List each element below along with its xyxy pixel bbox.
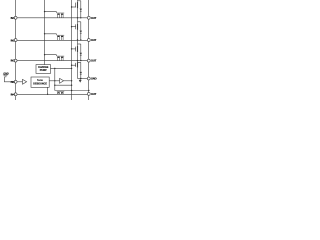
svg-text:OUT: OUT bbox=[91, 16, 97, 20]
FET3 channel bar bbox=[77, 46, 79, 52]
junction D1 anode bbox=[80, 17, 81, 18]
junction tap top bbox=[54, 68, 55, 69]
gate bus from charge pump bbox=[44, 0, 46, 65]
junction gate Q1 bbox=[71, 6, 72, 7]
wire row1 bbox=[17, 17, 87, 19]
junction gate bus row1 bbox=[44, 11, 45, 12]
pin ON bbox=[14, 80, 17, 83]
junction row4 gate bbox=[71, 90, 72, 91]
wire row3 bbox=[17, 60, 87, 62]
GND pin wire bbox=[78, 78, 88, 80]
junction buffer2 out bbox=[71, 80, 72, 81]
wire ON pin to buffer bbox=[17, 81, 22, 83]
buffer2 output wire bbox=[64, 80, 72, 82]
diode4 lead bbox=[80, 62, 82, 78]
junction row4 gate bus bbox=[88, 90, 89, 91]
gate branch row2 bbox=[45, 34, 57, 35]
right gate-drive line bbox=[71, 0, 73, 100]
pin IN1 bbox=[14, 16, 17, 19]
svg-text:GND: GND bbox=[3, 72, 9, 75]
junction gate Q4 bbox=[71, 65, 72, 66]
wire row2 bbox=[17, 39, 87, 41]
charge pump output wire bbox=[51, 67, 72, 69]
FET4 channel bar bbox=[77, 62, 79, 67]
svg-text:IN1: IN1 bbox=[11, 16, 15, 20]
junction gate Q3 bbox=[71, 48, 72, 49]
pin OUT3 bbox=[87, 59, 90, 62]
diode1 bar bbox=[80, 10, 82, 13]
gate branch row1 bbox=[45, 12, 57, 13]
FET stack channel lead bbox=[77, 0, 79, 79]
junction gate bus row2 bbox=[44, 33, 45, 34]
wire row4 bbox=[17, 93, 87, 95]
junction tap debounce bbox=[54, 80, 55, 81]
cluster row1 bbox=[57, 13, 64, 18]
junction dots bbox=[44, 6, 90, 95]
FET1 channel bar bbox=[77, 2, 79, 8]
diode2 bar bbox=[80, 32, 82, 35]
substrate arrow bbox=[79, 80, 82, 83]
FET3 gate bar bbox=[75, 47, 77, 52]
wire GND tie to ON pin bbox=[4, 77, 14, 82]
svg-text:IN2: IN2 bbox=[11, 38, 15, 42]
pin OUT2 bbox=[87, 39, 90, 42]
svg-text:OUT: OUT bbox=[91, 38, 97, 42]
output bus bbox=[88, 0, 90, 100]
left pin rail bbox=[15, 0, 17, 100]
junction D2 anode bbox=[80, 39, 81, 40]
junction Q3 source bbox=[77, 60, 78, 61]
junction D4 anode bbox=[80, 78, 81, 79]
debounce tap vertical bbox=[54, 68, 56, 90]
junction pump output bbox=[71, 68, 72, 69]
diode4 triangle bbox=[80, 72, 82, 74]
diode2 triangle bbox=[80, 31, 82, 33]
svg-text:OUT: OUT bbox=[91, 92, 97, 96]
debounce box bbox=[31, 77, 49, 87]
junction Q2 source bbox=[77, 39, 78, 40]
charge pump box bbox=[36, 65, 51, 74]
junction D3 anode bbox=[80, 60, 81, 61]
diode1 top bar bbox=[78, 0, 81, 2]
svg-text:GND: GND bbox=[91, 77, 97, 81]
substrate arrow stub bbox=[79, 79, 82, 81]
pin circles bbox=[14, 16, 90, 95]
junction lower logic bbox=[71, 85, 72, 86]
junction Q1 source bbox=[77, 17, 78, 18]
FET4 gate bar bbox=[75, 63, 77, 67]
diode4 bar bbox=[80, 73, 82, 76]
junction gate Q2 bbox=[71, 26, 72, 27]
diode3 bar bbox=[80, 54, 82, 57]
row4 gate line bbox=[55, 90, 89, 92]
cluster row3 bbox=[57, 56, 64, 61]
buffer U1 bbox=[23, 79, 27, 84]
FET4 gate lead bbox=[72, 64, 76, 66]
svg-text:DEBOUNCE: DEBOUNCE bbox=[33, 83, 47, 86]
diode3 triangle bbox=[80, 53, 82, 55]
svg-text:PUMP: PUMP bbox=[40, 69, 47, 72]
diode2 lead bbox=[80, 22, 82, 40]
pin OUT1 bbox=[87, 16, 90, 19]
junction debounce row4 bbox=[47, 94, 48, 95]
pin IN4 bbox=[14, 93, 17, 96]
diode1 triangle bbox=[80, 9, 82, 11]
pin IN2 bbox=[14, 39, 17, 42]
diode2 top bar bbox=[78, 21, 81, 23]
FET2 gate bar bbox=[75, 24, 77, 29]
svg-text:OUT: OUT bbox=[91, 59, 97, 63]
FET2 gate lead bbox=[72, 26, 76, 28]
pin OUT4 bbox=[87, 92, 90, 95]
svg-text:IN4: IN4 bbox=[11, 92, 15, 96]
diode3 top bar bbox=[78, 43, 81, 45]
gate branch row3 bbox=[45, 55, 57, 56]
diode1 lead bbox=[80, 1, 82, 18]
cluster row2 bbox=[57, 35, 64, 40]
debounce to row4 wire bbox=[47, 87, 49, 94]
lower logic wire bbox=[55, 84, 72, 86]
FET1 gate bar bbox=[75, 3, 77, 8]
junction gate bus row3 bbox=[44, 54, 45, 55]
diode3 lead bbox=[80, 44, 82, 61]
pin labels bbox=[11, 16, 97, 97]
svg-text:IN3: IN3 bbox=[11, 59, 15, 63]
cluster row4 bbox=[57, 92, 64, 95]
pin IN3 bbox=[14, 59, 17, 62]
debounce output wire to buffer2 bbox=[49, 80, 59, 82]
buffer U2 bbox=[60, 78, 64, 83]
svg-text:ON: ON bbox=[11, 80, 15, 84]
GND symbol bbox=[3, 75, 8, 77]
junction tap lower bbox=[54, 85, 55, 86]
FET3 gate lead bbox=[72, 48, 76, 50]
FET1 gate lead bbox=[72, 6, 76, 8]
FET2 channel bar bbox=[77, 24, 79, 30]
pin GND bbox=[87, 77, 90, 80]
diode4 top bar bbox=[78, 61, 81, 63]
